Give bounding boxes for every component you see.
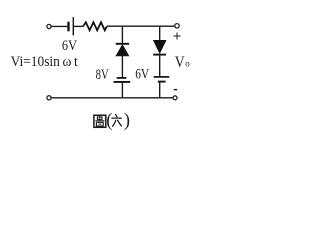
minus sign xyxy=(174,89,177,91)
svg-text:V: V xyxy=(175,54,185,71)
wire input to battery B1 xyxy=(51,25,67,27)
battery B3 6V (long top plate) xyxy=(154,76,170,78)
svg-text:6V: 6V xyxy=(135,67,149,83)
svg-text:8V: 8V xyxy=(96,67,109,83)
wire diode D2 to battery B3 xyxy=(159,55,161,77)
svg-text:6V: 6V xyxy=(62,38,77,54)
diode D1 triangle (anode below, pointing up) xyxy=(116,45,129,56)
input terminal (bottom-left) xyxy=(47,96,51,100)
bottom rail wire xyxy=(51,97,173,99)
caption glyph TU (figure) xyxy=(94,115,106,127)
svg-text:o: o xyxy=(185,58,190,68)
diode D2 cathode bar xyxy=(153,54,166,56)
wire battery B1 to resistor R1 xyxy=(74,25,83,27)
wire top rail resistor to output terminal xyxy=(107,25,175,27)
battery B3 6V (short bottom plate) xyxy=(158,81,166,83)
node A junction of diode D1 branch xyxy=(121,26,123,43)
svg-text:): ) xyxy=(124,111,130,131)
caption glyph LIU (six) xyxy=(112,114,122,126)
battery B1 6V (short negative plate) xyxy=(67,22,69,32)
wire battery B3 to bottom rail xyxy=(159,82,161,98)
svg-text:Vi=10sin ω t: Vi=10sin ω t xyxy=(11,54,79,70)
wire diode D1 to battery B2 xyxy=(121,56,123,78)
battery B2 8V (short top plate) xyxy=(117,77,127,79)
diode D1 cathode bar xyxy=(116,43,130,45)
battery B2 8V (long bottom plate) xyxy=(114,81,131,83)
label Vo xyxy=(175,54,191,71)
diode D2 triangle (anode above, pointing down) xyxy=(153,40,166,53)
battery B1 6V (long positive plate) xyxy=(72,17,74,35)
resistor R1 xyxy=(83,22,107,30)
output terminal + (top-right) xyxy=(175,24,179,28)
output terminal - (bottom-right) xyxy=(173,96,177,100)
svg-text:(: ( xyxy=(106,111,112,131)
plus sign xyxy=(174,33,181,40)
wire battery B2 to bottom rail xyxy=(121,83,123,98)
node B junction of diode D2 branch xyxy=(159,26,161,40)
input terminal (top-left) xyxy=(47,24,51,28)
